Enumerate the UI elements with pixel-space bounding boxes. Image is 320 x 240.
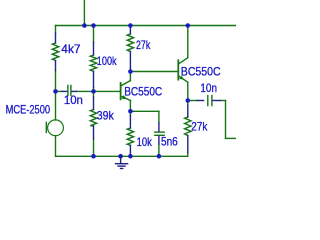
svg-text:10k: 10k [137,135,153,149]
svg-text:4k7: 4k7 [61,42,81,56]
svg-text:39k: 39k [97,109,115,123]
svg-text:5n6: 5n6 [161,135,178,149]
svg-text:100k: 100k [97,54,118,68]
svg-text:10n: 10n [200,81,217,95]
svg-text:27k: 27k [191,119,208,133]
svg-text:MCE-2500: MCE-2500 [6,103,51,117]
svg-text:BC550C: BC550C [181,64,221,78]
svg-text:BC550C: BC550C [124,84,162,98]
svg-text:10n: 10n [64,93,83,107]
svg-text:27k: 27k [136,38,151,52]
